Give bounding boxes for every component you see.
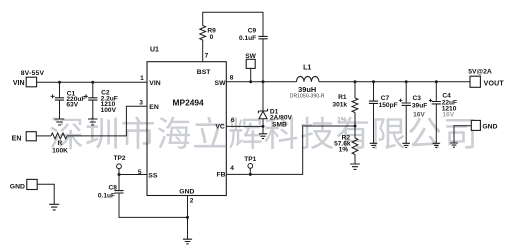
- svg-text:16V: 16V: [413, 111, 425, 118]
- svg-text:0: 0: [210, 34, 214, 41]
- svg-text:63V: 63V: [66, 102, 78, 109]
- wire C4 bottom: [435, 104, 437, 143]
- node SW-D1 junction: [262, 80, 265, 83]
- resistor R 100K: [51, 133, 68, 154]
- wire C7 bottom: [373, 103, 375, 143]
- op-amp U1 MP2494 IC body: [147, 47, 226, 196]
- wire C7 top: [373, 82, 375, 101]
- inductor L1 39uH: [290, 64, 325, 99]
- svg-text:3: 3: [139, 100, 143, 107]
- terminal GND right: [471, 120, 497, 130]
- ground under pin 2: [183, 239, 192, 244]
- wire VC: [226, 125, 263, 127]
- svg-text:1%: 1%: [339, 147, 349, 154]
- svg-text:16V: 16V: [442, 111, 454, 118]
- svg-text:MP2494: MP2494: [173, 97, 205, 107]
- svg-text:39uF: 39uF: [412, 102, 427, 109]
- svg-text:EN: EN: [12, 135, 22, 142]
- wire R2 top: [354, 126, 356, 138]
- svg-text:DR1050-390-R: DR1050-390-R: [290, 93, 325, 99]
- wire C1 top: [59, 82, 61, 97]
- wire SS: [119, 174, 147, 176]
- svg-text:5V@2A: 5V@2A: [468, 68, 492, 75]
- svg-text:7: 7: [205, 53, 209, 60]
- svg-text:SMB: SMB: [272, 122, 287, 129]
- ground under GND right: [450, 143, 458, 147]
- svg-text:VIN: VIN: [13, 80, 25, 87]
- wire R1 top: [354, 82, 356, 98]
- svg-text:8: 8: [230, 74, 234, 81]
- svg-text:FB: FB: [216, 172, 225, 179]
- wire D1 gnd stub: [262, 126, 264, 133]
- test point TP1: [244, 156, 256, 174]
- svg-text:C3: C3: [413, 95, 422, 102]
- node D1-VC junction: [262, 125, 265, 128]
- terminal SW: [245, 53, 256, 68]
- wire GND-left: [37, 184, 54, 204]
- wire VIN rail: [37, 81, 147, 83]
- node C8-GND junction: [186, 216, 189, 219]
- svg-text:L1: L1: [303, 64, 311, 71]
- svg-text:VOUT: VOUT: [484, 80, 505, 87]
- node FB-R1R2 junction: [354, 125, 357, 128]
- node C7 junction: [372, 80, 375, 83]
- terminal VOUT 5V@2A: [468, 68, 504, 87]
- svg-text:C9: C9: [248, 28, 257, 35]
- ground under D1: [259, 126, 267, 138]
- wire FB: [226, 126, 355, 174]
- wire pin7: [202, 40, 204, 62]
- wire D1 anode: [262, 119, 264, 127]
- wire C8 top: [118, 175, 120, 191]
- node C4 junction: [435, 80, 438, 83]
- svg-text:0.1uF: 0.1uF: [239, 35, 256, 42]
- svg-text:C7: C7: [381, 95, 390, 102]
- svg-text:GND: GND: [10, 184, 25, 191]
- wire D1 top: [262, 82, 264, 111]
- svg-text:SW: SW: [215, 80, 227, 87]
- wire C2 bottom: [92, 100, 94, 119]
- ground under GND terminal: [49, 204, 59, 210]
- svg-text:GND: GND: [179, 188, 194, 195]
- resistor R2 57.6k 1%: [334, 126, 358, 164]
- svg-text:150pF: 150pF: [379, 102, 398, 109]
- terminal GND bottom-left: [10, 179, 37, 190]
- ground under C7: [370, 143, 378, 147]
- resistor R9 0: [200, 26, 216, 41]
- capacitor C3 39uF 16V: [399, 82, 427, 144]
- capacitor C7 150pF: [369, 82, 398, 144]
- resistor R1 301k: [332, 82, 357, 126]
- wire SW rail: [226, 81, 296, 83]
- svg-text:VC: VC: [215, 123, 225, 130]
- node R1 junction: [354, 80, 357, 83]
- wire pin2 gnd: [187, 196, 189, 240]
- svg-text:GND: GND: [482, 124, 497, 131]
- wire EN to pin3: [67, 106, 147, 136]
- node SW-box junction: [249, 80, 252, 83]
- capacitor C8 0.1uF: [98, 175, 124, 200]
- svg-text:2A/80V: 2A/80V: [270, 115, 293, 122]
- capacitor C1 220uF 63V: [51, 82, 86, 119]
- svg-text:TP2: TP2: [113, 155, 125, 162]
- ground under C2: [88, 119, 98, 125]
- svg-text:301k: 301k: [332, 101, 347, 108]
- svg-text:U1: U1: [150, 47, 159, 54]
- svg-text:EN: EN: [149, 104, 159, 111]
- wire BST top: [203, 12, 263, 36]
- svg-text:VIN: VIN: [149, 80, 160, 87]
- svg-text:R1: R1: [338, 94, 347, 101]
- node TP2-SS-C8 junction: [118, 173, 121, 176]
- terminal VIN with 8V-55V label: [13, 70, 45, 87]
- wire SW stub: [250, 68, 252, 81]
- wire C4 top: [435, 82, 437, 102]
- wire EN left: [36, 135, 51, 137]
- wire GND-right: [454, 126, 471, 143]
- wire R2 bottom: [354, 155, 356, 165]
- svg-text:TP1: TP1: [244, 156, 256, 163]
- ground under R2: [350, 164, 360, 169]
- terminal EN: [12, 132, 37, 143]
- svg-text:100V: 100V: [101, 107, 117, 114]
- ground under C3: [402, 143, 410, 147]
- ground under C1: [55, 119, 65, 125]
- node VIN-C1 junction: [58, 81, 61, 84]
- svg-text:C8: C8: [108, 184, 117, 191]
- wire C3 bottom: [405, 105, 407, 143]
- node VIN-C2 junction: [91, 81, 94, 84]
- svg-text:SW: SW: [245, 53, 256, 60]
- svg-text:4: 4: [230, 165, 234, 172]
- svg-text:1: 1: [140, 75, 144, 82]
- svg-text:2: 2: [190, 197, 194, 204]
- wire C8 bottom: [119, 193, 188, 217]
- capacitor C2 2.2uF 1210 100V: [84, 82, 118, 119]
- wire C2 top: [92, 82, 94, 97]
- wire C3 top: [405, 82, 407, 103]
- node C3 junction: [405, 80, 408, 83]
- node TP1-FB junction: [249, 173, 252, 176]
- capacitor C9 0.1uF: [239, 28, 268, 43]
- svg-text:C4: C4: [442, 92, 451, 99]
- svg-text:1%: 1%: [337, 117, 347, 124]
- capacitor C4 22uF 1210 16V: [429, 82, 457, 144]
- wire VOUT rail: [319, 81, 470, 83]
- svg-text:6: 6: [231, 117, 235, 124]
- svg-text:BST: BST: [197, 69, 211, 76]
- wire C9 down: [262, 39, 264, 82]
- test point TP2: [113, 155, 125, 174]
- svg-text:100K: 100K: [52, 147, 68, 154]
- wire TP1 stub: [249, 168, 251, 174]
- svg-text:SS: SS: [148, 173, 158, 180]
- svg-text:R: R: [58, 140, 63, 147]
- svg-text:8V-55V: 8V-55V: [21, 70, 45, 77]
- wire R1 bottom: [354, 113, 356, 127]
- watermark text 深圳市海立辉科技有限公司: [50, 117, 474, 150]
- svg-text:0.1uF: 0.1uF: [98, 192, 115, 199]
- ground under C4: [433, 143, 441, 147]
- wire TP2 stub: [118, 169, 120, 175]
- diode D1 2A/80V SMB: [258, 82, 292, 129]
- wire C1 bottom: [59, 100, 61, 119]
